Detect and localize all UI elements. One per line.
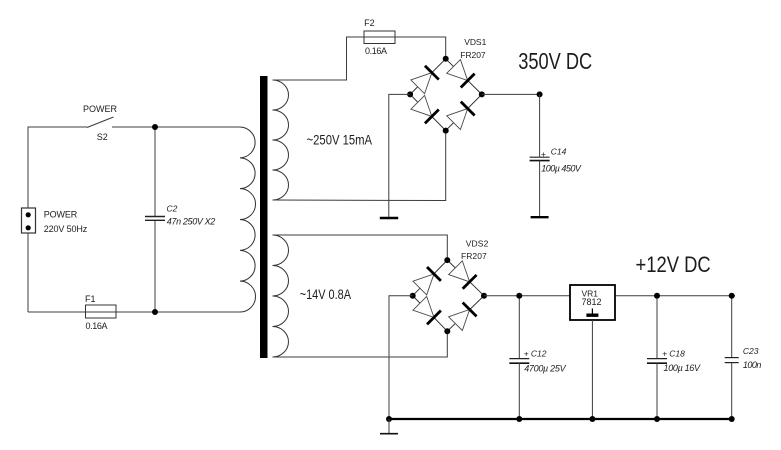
node junction dot 350V / C14 (537, 91, 543, 97)
svg-text:~14V 0.8A: ~14V 0.8A (300, 286, 352, 302)
wire C2 lower segment (154, 221, 156, 313)
connector pin 2 (26, 225, 31, 230)
fuse F2 body (364, 31, 395, 44)
wire secondary top lead to fuse F2 and bridge top (273, 37, 446, 80)
svg-text:+12V DC: +12V DC (636, 252, 711, 277)
wire +12V rail left (VDS2 to VR1) (484, 295, 570, 297)
transformer T1 core (260, 76, 268, 358)
wire C12 bottom lead (518, 363, 520, 419)
svg-text:C18: C18 (669, 349, 685, 359)
node junction dot VDS1 left (407, 91, 413, 97)
diode VDS1 D2 (top-right) (447, 59, 475, 87)
svg-text:POWER: POWER (83, 104, 118, 114)
svg-text:FR207: FR207 (461, 251, 487, 261)
svg-text:100µ 16V: 100µ 16V (664, 363, 701, 373)
node junction dot rail/VDS2 ground (386, 416, 392, 422)
svg-text:F2: F2 (364, 18, 375, 28)
transformer secondary winding bottom (~14V) (273, 235, 289, 357)
transformer secondary winding top (~250V) (273, 80, 289, 200)
svg-text:350V DC: 350V DC (518, 48, 592, 74)
ground (C14) (531, 216, 549, 218)
svg-text:FR207: FR207 (460, 50, 486, 60)
wire secondary bottom winding bottom lead to VDS2 bottom (273, 331, 448, 357)
capacitor C2 plates (145, 217, 165, 221)
node junction dot VDS1 right (479, 91, 485, 97)
wire C18 bottom lead (656, 363, 658, 419)
wire bottom horizontal through fuse F1 to primary bottom (28, 311, 240, 313)
capacitor C23 plates (725, 357, 739, 359)
svg-text:F1: F1 (85, 294, 96, 304)
node junction dot +12V/C23 (729, 293, 735, 299)
diode VDS2 D1 (left-top) (413, 267, 441, 295)
regulator VR1 7812 body (570, 285, 615, 320)
node junction dot rail/C12 (516, 416, 522, 422)
wire C14 bottom lead (539, 161, 541, 216)
svg-text:C14: C14 (551, 147, 567, 157)
ground (VDS1) (380, 217, 398, 220)
node junction dot VDS2 left (410, 293, 416, 299)
ground rail bottom (389, 418, 732, 420)
node junction dot rail/C18 (654, 416, 660, 422)
svg-text:47n 250V X2: 47n 250V X2 (167, 217, 216, 227)
svg-text:0.16A: 0.16A (86, 321, 108, 331)
svg-text:+: + (541, 149, 546, 159)
wire bottom-left vertical from mains connector (27, 233, 29, 312)
ground (bottom rail) (388, 419, 390, 433)
svg-text:100µ 450V: 100µ 450V (541, 164, 582, 174)
wire secondary bottom winding top lead to VDS2 top (273, 235, 448, 260)
wire secondary top winding bottom lead to bridge bottom (273, 131, 446, 201)
svg-text:4700µ 25V: 4700µ 25V (524, 364, 566, 374)
capacitor C14 plates (530, 156, 550, 158)
node B junction dot F1/C2 bottom (152, 309, 158, 315)
node junction dot VDS2 right (481, 293, 487, 299)
diode VDS1 D4 (bottom-right) (447, 102, 475, 130)
diode VDS2 D2 (top-right) (449, 261, 477, 289)
node junction dot +12V/C12 (516, 293, 522, 299)
wire C18 top lead (656, 296, 658, 358)
VR1 ground tab (591, 309, 593, 314)
svg-text:POWER: POWER (44, 210, 78, 220)
capacitor C18 plates (647, 358, 667, 360)
bridge rectifier VDS2 diamond (413, 260, 484, 331)
wire VR1 ground pin (591, 320, 593, 419)
diode VDS2 D4 (bottom-right) (449, 303, 477, 331)
wire C23 bottom lead (731, 363, 733, 419)
svg-text:C23: C23 (743, 346, 759, 356)
svg-text:220V 50Hz: 220V 50Hz (44, 224, 88, 234)
svg-text:100n: 100n (743, 360, 762, 370)
svg-text:VDS1: VDS1 (464, 37, 486, 47)
wire C14 top lead (539, 94, 541, 157)
diode VDS1 D3 (left-bottom) (411, 95, 439, 123)
svg-text:C12: C12 (531, 348, 547, 358)
svg-text:+: + (524, 349, 529, 359)
svg-text:0.16A: 0.16A (365, 46, 387, 56)
node A junction dot switch/C2 top (152, 124, 158, 130)
wire VDS2 negative to ground rail (389, 296, 413, 419)
node junction dot +12V/C18 (654, 293, 660, 299)
wire top-left horizontal from mains to switch (28, 127, 87, 208)
wire VDS1 positive output 350V (482, 93, 540, 95)
wire C23 top lead (731, 296, 733, 358)
node junction dot rail/C23 (729, 416, 735, 422)
svg-text:VDS2: VDS2 (466, 238, 489, 248)
svg-text:+: + (662, 349, 667, 359)
svg-text:S2: S2 (97, 132, 108, 142)
wire C2 upper segment (154, 127, 156, 216)
wire from switch to transformer primary top (112, 126, 240, 128)
connector J1 mains input box (22, 208, 36, 233)
node junction dot rail/VR1 (589, 416, 595, 422)
diode VDS1 D1 (left-top) (411, 66, 439, 94)
bridge rectifier VDS1 diamond (410, 59, 482, 131)
wire C12 top lead (518, 296, 520, 358)
switch S2 blade (87, 117, 114, 128)
wire +12V rail right (VR1 to C23) (615, 295, 735, 297)
connector pin 1 (26, 212, 31, 217)
svg-text:7812: 7812 (582, 297, 602, 307)
node junction dot VDS1 top (443, 56, 449, 62)
node junction dot VDS2 bottom (444, 328, 450, 334)
svg-text:C2: C2 (167, 204, 178, 214)
wire VDS1 negative to ground (389, 94, 410, 217)
fuse F1 body (86, 305, 117, 318)
transformer primary winding (240, 127, 256, 312)
capacitor C12 plates (509, 358, 529, 360)
node junction dot VDS2 top (444, 257, 450, 263)
svg-text:~250V 15mA: ~250V 15mA (307, 131, 373, 147)
node junction dot VDS1 bottom (443, 128, 449, 134)
diode VDS2 D3 (left-bottom) (413, 296, 441, 324)
